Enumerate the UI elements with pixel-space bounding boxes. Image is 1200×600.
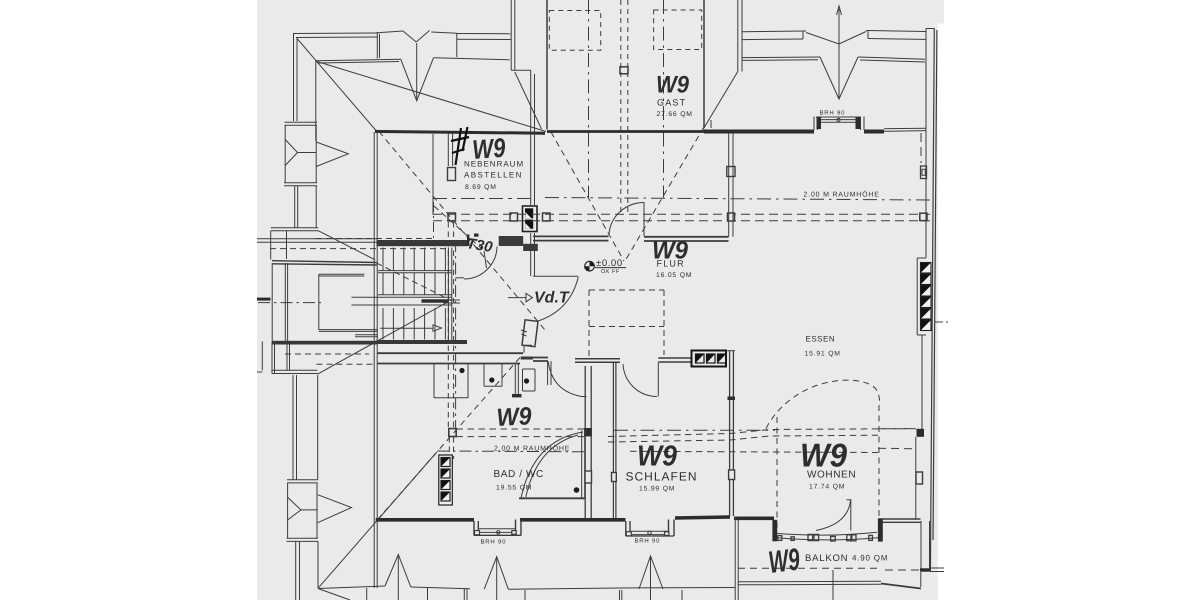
svg-text:BALKON: BALKON <box>805 553 848 564</box>
svg-text:BRH 90: BRH 90 <box>820 110 846 117</box>
svg-text:W9: W9 <box>767 541 803 580</box>
svg-text:27.66 QM: 27.66 QM <box>657 111 693 118</box>
svg-text:2.00 M RAUMHÖHE: 2.00 M RAUMHÖHE <box>804 191 880 199</box>
svg-text:Vd.T: Vd.T <box>534 290 570 307</box>
svg-text:17.74 QM: 17.74 QM <box>809 484 845 491</box>
svg-text:W9: W9 <box>471 133 506 165</box>
svg-text:19.55 QM: 19.55 QM <box>496 485 532 492</box>
svg-text:W9: W9 <box>652 237 688 265</box>
svg-text:4.90 QM: 4.90 QM <box>852 554 888 563</box>
svg-text:8.69 QM: 8.69 QM <box>465 184 497 191</box>
svg-text:16.05 QM: 16.05 QM <box>656 272 692 279</box>
svg-text:ABSTELLEN: ABSTELLEN <box>464 171 523 180</box>
svg-text:BAD / WC: BAD / WC <box>494 469 544 480</box>
svg-text:15.91 QM: 15.91 QM <box>805 351 841 358</box>
svg-text:ESSEN: ESSEN <box>806 335 836 344</box>
svg-text:15.99 QM: 15.99 QM <box>639 486 675 493</box>
svg-text:BRH 90: BRH 90 <box>481 539 507 546</box>
svg-text:2.00 M RAUMHÖHE: 2.00 M RAUMHÖHE <box>494 445 570 453</box>
svg-text:W9: W9 <box>656 72 690 99</box>
svg-text:BRH 90: BRH 90 <box>635 538 661 545</box>
svg-text:GAST: GAST <box>657 98 686 108</box>
svg-text:W9: W9 <box>496 402 533 432</box>
svg-text:W9: W9 <box>637 441 677 473</box>
svg-text:OK FF: OK FF <box>601 269 620 275</box>
svg-text:W9: W9 <box>800 437 848 474</box>
